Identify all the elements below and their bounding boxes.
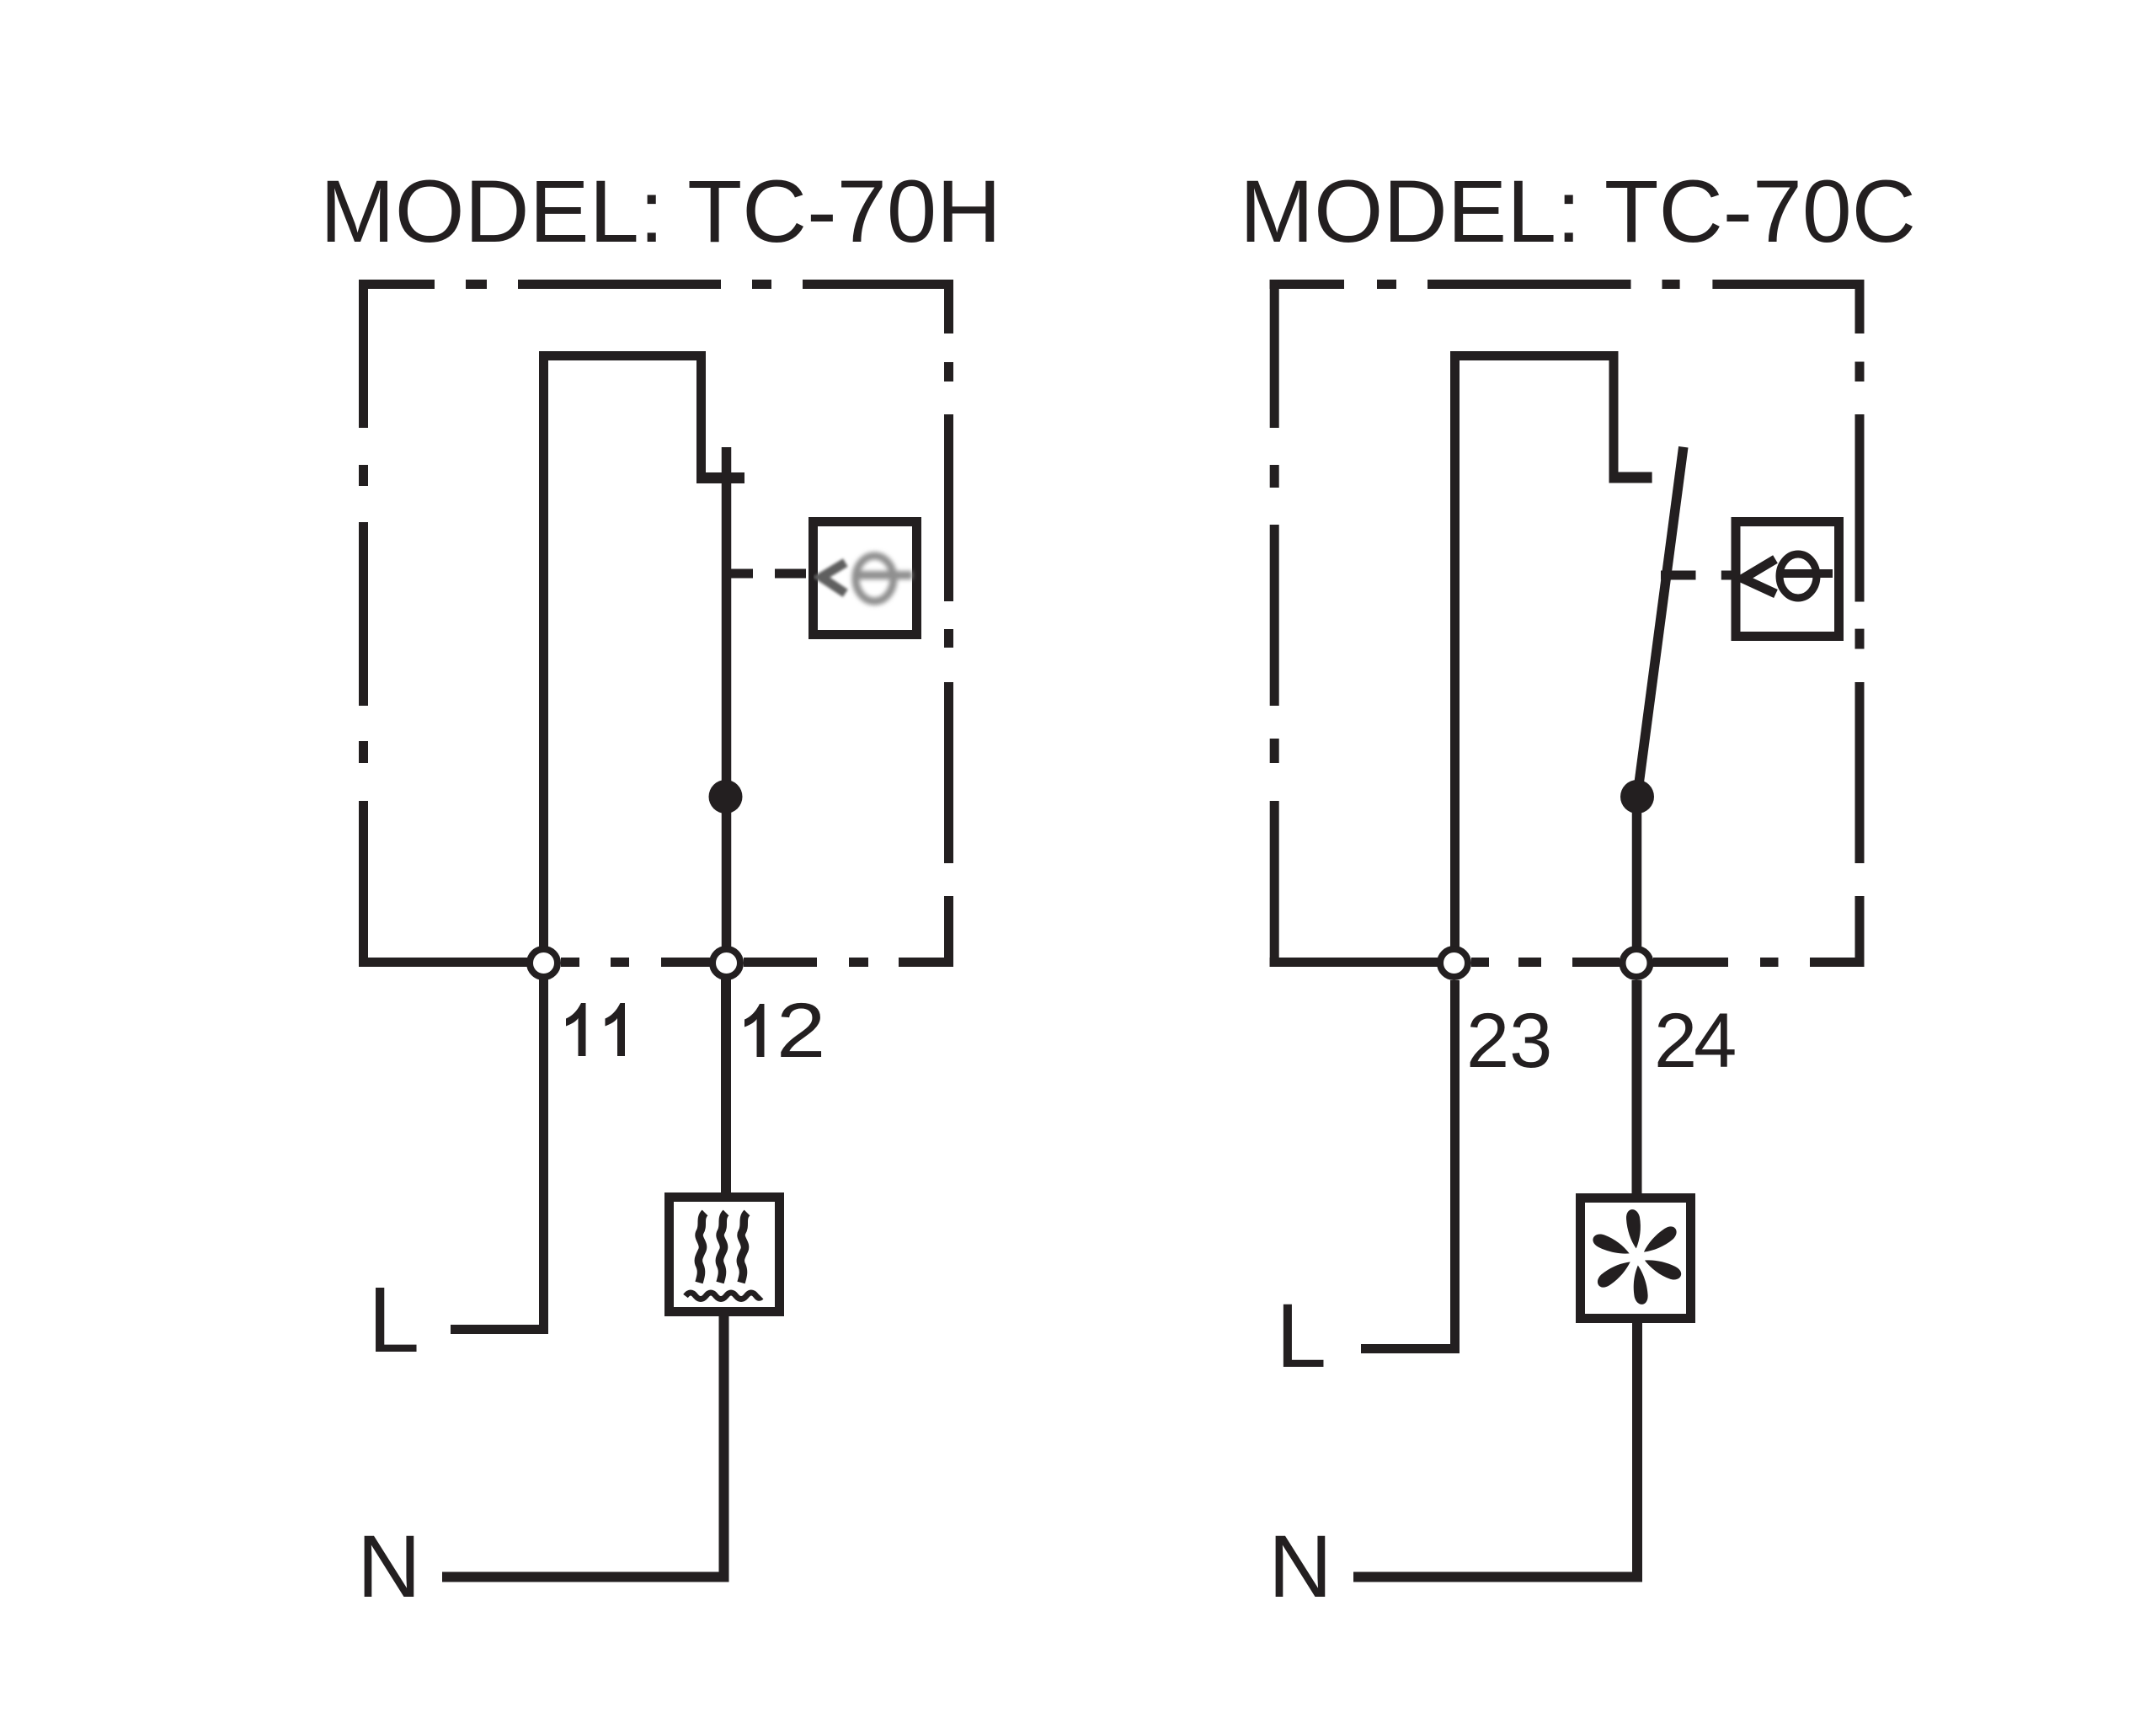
fixed contact seat bar xyxy=(696,472,744,483)
heater symbol flame squiggle 2 xyxy=(719,1213,726,1283)
svg-text:MODEL: TC-70C: MODEL: TC-70C xyxy=(1240,163,1916,261)
fixed contact seat bar (TC-70C) xyxy=(1609,472,1652,483)
enclosure TC-70C dash-dot boundary left border xyxy=(1270,280,1279,967)
contact moving member (open diagonal, TC-70C) xyxy=(1637,447,1684,797)
svg-text:2: 2 xyxy=(776,987,825,1074)
terminal circle 11 xyxy=(530,949,558,977)
svg-text:N: N xyxy=(357,1518,421,1616)
label 11 xyxy=(566,1003,625,1056)
terminal circle 23 xyxy=(1440,949,1468,977)
svg-text:L: L xyxy=(1276,1284,1326,1386)
enclosure TC-70H dash-dot boundary bottom border xyxy=(359,958,953,967)
wire: heater down to N xyxy=(442,1312,724,1577)
heater symbol flame squiggle 1 xyxy=(698,1213,705,1283)
wire: terminal 12 down to heater xyxy=(721,979,731,1196)
heater symbol flame squiggle 3 xyxy=(740,1213,747,1283)
wire: fan down to N xyxy=(1353,1319,1637,1577)
fan rotor 6-petal symbol xyxy=(1589,1208,1684,1305)
heater symbol wavy base xyxy=(686,1293,761,1299)
svg-text:23: 23 xyxy=(1466,998,1552,1084)
enclosure TC-70H dash-dot boundary left border xyxy=(359,280,368,967)
enclosure TC-70C dash-dot boundary bottom border xyxy=(1270,958,1865,967)
wire: terminal 24 down to fan xyxy=(1632,980,1642,1196)
label 12 xyxy=(744,987,825,1074)
heater load box xyxy=(670,1198,780,1312)
enclosure TC-70H dash-dot boundary top border xyxy=(359,280,953,289)
svg-text:MODEL: TC-70H: MODEL: TC-70H xyxy=(320,163,1001,261)
wire: junction dot down to terminal 12 xyxy=(722,797,732,949)
junction dot xyxy=(709,780,743,814)
temperature sensor box TC-70H xyxy=(814,522,917,635)
junction dot (TC-70C) xyxy=(1620,780,1654,814)
wire: terminal 11 down to L xyxy=(451,979,544,1330)
enclosure TC-70C dash-dot boundary right border xyxy=(1855,280,1865,967)
sensor symbol theta (TC-70C) xyxy=(1777,554,1833,598)
svg-text:N: N xyxy=(1268,1518,1332,1616)
terminal circle 12 xyxy=(712,949,740,977)
dashed link contact to sensor (TC-70C) xyxy=(1661,571,1732,580)
wire: terminal 11 riser and top loop to fixed contact xyxy=(544,356,702,948)
sensor symbol theta (blurred) xyxy=(852,556,912,601)
svg-text:24: 24 xyxy=(1654,998,1735,1084)
wire: junction dot down to terminal 24 xyxy=(1632,797,1642,949)
enclosure TC-70H dash-dot boundary right border xyxy=(944,280,953,967)
svg-text:L: L xyxy=(368,1268,419,1372)
fan load box xyxy=(1581,1198,1691,1319)
enclosure TC-70C dash-dot boundary top border xyxy=(1270,280,1865,289)
terminal circle 24 xyxy=(1623,949,1651,977)
temperature sensor box TC-70C xyxy=(1736,522,1839,637)
sensor symbol less-than (blurred) xyxy=(821,563,846,593)
wire: terminal 23 down to L xyxy=(1361,980,1455,1349)
sensor symbol less-than (TC-70C) xyxy=(1743,559,1776,594)
wire: terminal 23 riser and top loop to fixed contact xyxy=(1455,356,1614,948)
contact moving member (closed, TC-70H) xyxy=(722,447,732,797)
dashed link contact to sensor xyxy=(727,569,806,579)
